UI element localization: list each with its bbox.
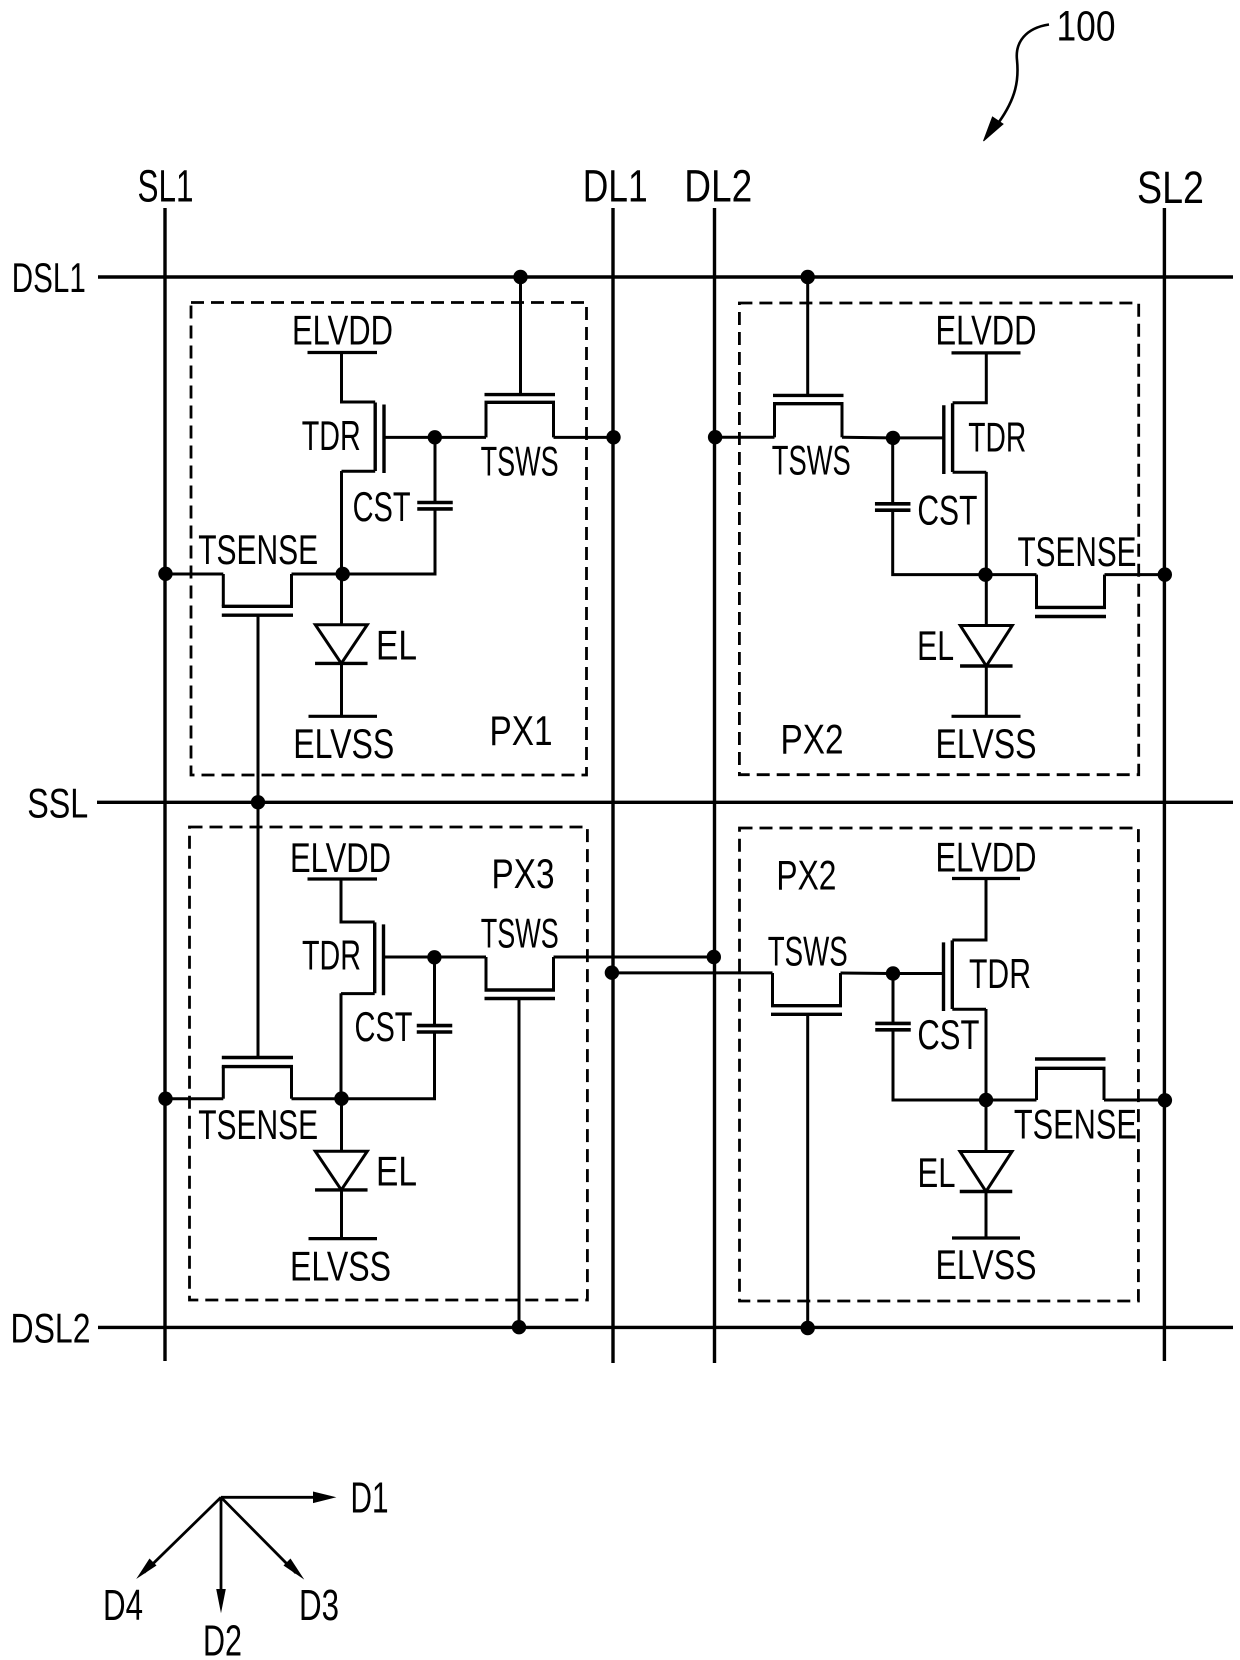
wire TSWS to node G (PX4) <box>841 972 894 976</box>
wire node G to TSWS (PX3) <box>434 956 486 959</box>
node G junction dot (PX4) <box>886 966 900 980</box>
svg-text:DL1: DL1 <box>583 161 648 212</box>
transistor TSENSE (PX3, sense) <box>222 1058 293 1099</box>
wire SSL (sense scan line, horizontal) <box>97 801 1233 804</box>
power symbol ELVSS (PX4) <box>952 1236 1020 1239</box>
wire node G to CST (PX4) <box>892 974 895 1024</box>
svg-text:TDR: TDR <box>302 932 361 979</box>
wire node G to TSWS (PX1) <box>435 436 486 439</box>
svg-text:CST: CST <box>917 487 977 534</box>
wire DL1 (data line 1, vertical) <box>611 208 614 1363</box>
wire TDR drain to node S (PX4) <box>985 1009 988 1100</box>
svg-text:SSL: SSL <box>27 779 88 826</box>
wire DL2 (data line 2, vertical) <box>713 208 716 1363</box>
svg-text:PX2: PX2 <box>781 716 844 763</box>
wire node G to CST (PX2) <box>891 438 894 504</box>
svg-text:DL2: DL2 <box>684 161 752 212</box>
wire TDR drain to node S (PX2) <box>985 472 988 575</box>
wire node S to TSENSE (PX4) <box>986 1099 1037 1102</box>
direction arrow D1 <box>221 1496 320 1499</box>
svg-text:ELVDD: ELVDD <box>292 307 393 354</box>
wire TSENSE to node S (PX3) <box>292 1097 343 1100</box>
junction dot on SL1 (PX1) <box>158 567 172 581</box>
node G junction dot (PX1) <box>428 430 442 444</box>
svg-text:100: 100 <box>1057 2 1116 50</box>
wire TSWS to node G (PX2) <box>842 436 893 440</box>
transistor TDR (PX3, drive) <box>341 879 384 995</box>
svg-text:TDR: TDR <box>302 412 361 459</box>
svg-text:TDR: TDR <box>968 414 1026 461</box>
transistor TSWS (PX2, switch) <box>773 395 844 437</box>
wire CST to node S (PX3) <box>342 1032 435 1099</box>
junction dot on DSL2 (PX3 gate) <box>512 1320 526 1334</box>
svg-text:SL1: SL1 <box>138 161 194 212</box>
wire TDR gate to node G (PX2) <box>893 436 944 439</box>
wire CST to node S (PX4) <box>893 1030 986 1100</box>
node G junction dot (PX3) <box>427 950 441 964</box>
wire node S to TSENSE (PX2) <box>986 573 1037 576</box>
capacitor CST (PX3) <box>417 1026 453 1032</box>
wire TSWS gate to DSL1 (PX1) <box>519 277 522 395</box>
junction dot on DL1 (PX4) <box>605 966 619 980</box>
wire node G to CST (PX3) <box>433 957 436 1025</box>
wire TSENSE gate to SSL (PX3) <box>257 802 260 1057</box>
capacitor CST (PX4) <box>875 1023 911 1029</box>
wire TDR gate to node G (PX1) <box>384 436 435 439</box>
capacitor CST (PX2) <box>875 504 911 510</box>
svg-text:CST: CST <box>917 1011 979 1058</box>
wire EL cathode to ELVSS (PX4) <box>985 1192 988 1239</box>
wire DL2 to TSWS (PX2) <box>715 436 774 439</box>
wire EL cathode to ELVSS (PX3) <box>340 1190 343 1239</box>
power symbol ELVDD (PX1) <box>308 351 378 354</box>
el diode EL (PX3) <box>340 1099 343 1152</box>
lead line arrow to 100 <box>999 25 1049 123</box>
junction dot on SL2 (PX2) <box>1158 567 1172 581</box>
svg-text:TSENSE: TSENSE <box>1018 528 1137 575</box>
transistor TDR (PX2, drive) <box>944 353 987 474</box>
svg-text:EL: EL <box>918 1149 956 1196</box>
wire SL2 (scan line 2, vertical) <box>1163 208 1166 1361</box>
direction arrow D3 <box>221 1497 296 1573</box>
transistor TDR (PX1, drive) <box>342 353 385 474</box>
capacitor CST (PX1) <box>417 503 453 509</box>
svg-text:TSENSE: TSENSE <box>198 526 318 573</box>
svg-text:ELVDD: ELVDD <box>936 307 1037 354</box>
wire DSL1 (drive scan line 1, horizontal) <box>98 275 1233 278</box>
svg-text:SL2: SL2 <box>1137 162 1204 213</box>
transistor TSENSE (PX2, sense) <box>1035 575 1106 617</box>
junction dot on SL2 (PX4) <box>1158 1093 1172 1107</box>
junction dot on SSL <box>251 795 265 809</box>
svg-text:TSWS: TSWS <box>481 909 559 956</box>
node S junction dot (PX4) <box>979 1093 993 1107</box>
transistor TSWS (PX4, switch) <box>771 973 842 1014</box>
wire SL1 to TSENSE (PX1) <box>165 573 223 576</box>
svg-text:CST: CST <box>355 1003 413 1050</box>
svg-text:D3: D3 <box>299 1581 339 1630</box>
wire TSENSE gate to SSL (PX1) <box>257 615 260 802</box>
wire TDR gate to node G (PX4) <box>893 972 944 975</box>
wire SL1 (scan line 1, vertical) <box>163 208 166 1361</box>
el diode EL (PX4) <box>985 1100 988 1151</box>
power symbol ELVSS (PX3) <box>309 1237 378 1240</box>
svg-text:EL: EL <box>376 1148 417 1195</box>
transistor TSWS (PX3, switch) <box>485 957 556 999</box>
svg-text:CST: CST <box>353 483 411 530</box>
wire CST to node S (PX2) <box>893 510 986 574</box>
wire TSWS to DL2 (PX3) <box>554 956 715 959</box>
svg-text:TDR: TDR <box>969 950 1031 997</box>
wire TSENSE to node S (PX1) <box>292 573 343 576</box>
power symbol ELVSS (PX1) <box>309 715 378 718</box>
junction dot on DL2 (PX2) <box>708 430 722 444</box>
svg-text:ELVSS: ELVSS <box>936 1241 1037 1288</box>
transistor TSENSE (PX1, sense) <box>222 574 293 615</box>
direction arrow D2 <box>220 1497 223 1592</box>
power symbol ELVDD (PX4) <box>952 877 1020 880</box>
wire TSWS to DL1 (PX1) <box>554 436 614 439</box>
node S junction dot (PX1) <box>336 567 350 581</box>
junction dot on DSL2 (PX4 gate) <box>801 1321 815 1335</box>
junction dot on SL1 (PX3) <box>158 1092 172 1106</box>
svg-text:PX2: PX2 <box>776 852 836 899</box>
svg-text:D1: D1 <box>351 1473 389 1522</box>
junction dot on DSL1 (PX2 gate) <box>801 270 815 284</box>
svg-text:D4: D4 <box>103 1581 143 1630</box>
power symbol ELVDD (PX2) <box>952 351 1021 354</box>
power symbol ELVSS (PX2) <box>952 715 1021 718</box>
wire TSWS gate to DSL2 (PX4) <box>806 1014 809 1327</box>
svg-text:ELVSS: ELVSS <box>290 1243 391 1290</box>
wire EL cathode to ELVSS (PX1) <box>340 663 343 716</box>
svg-text:PX3: PX3 <box>492 850 555 897</box>
wire CST to node S (PX1) <box>343 509 435 574</box>
wire TSWS gate to DSL2 (PX3) <box>518 999 521 1328</box>
svg-text:TSENSE: TSENSE <box>198 1101 318 1148</box>
el diode EL (PX2) <box>985 575 988 625</box>
svg-text:D2: D2 <box>203 1616 242 1660</box>
wire node G to CST (PX1) <box>434 437 437 502</box>
svg-text:ELVDD: ELVDD <box>936 834 1037 881</box>
node G junction dot (PX2) <box>886 431 900 445</box>
pixel PX4 boundary (dashed box, bottom-right) <box>740 828 1139 1301</box>
wire EL cathode to ELVSS (PX2) <box>985 666 988 716</box>
svg-text:ELVSS: ELVSS <box>936 720 1037 767</box>
svg-text:TSWS: TSWS <box>481 438 559 485</box>
el diode EL (PX1) <box>340 574 343 625</box>
node S junction dot (PX3) <box>334 1091 348 1105</box>
pixel PX1 boundary (dashed box) <box>191 303 587 776</box>
junction dot on DSL1 (PX1 gate) <box>513 270 527 284</box>
direction arrow D4 <box>144 1497 221 1572</box>
svg-text:PX1: PX1 <box>490 707 553 754</box>
svg-text:TSWS: TSWS <box>768 927 848 974</box>
junction dot on DL1 (PX1) <box>606 430 620 444</box>
svg-text:EL: EL <box>376 622 417 669</box>
pixel PX3 boundary (dashed box) <box>190 827 588 1300</box>
wire TSWS gate to DSL1 (PX2) <box>806 277 809 395</box>
svg-text:EL: EL <box>917 622 954 669</box>
pixel PX2 boundary (dashed box, top-right) <box>739 303 1138 775</box>
svg-text:ELVSS: ELVSS <box>293 720 394 767</box>
wire SL1 to TSENSE (PX3) <box>165 1097 223 1100</box>
transistor TSENSE (PX4, sense) <box>1035 1059 1106 1100</box>
svg-text:DSL2: DSL2 <box>11 1304 91 1351</box>
svg-text:TSENSE: TSENSE <box>1014 1101 1137 1148</box>
transistor TSWS (PX1, switch) <box>485 395 556 438</box>
svg-text:TSWS: TSWS <box>772 437 851 484</box>
wire TDR drain to node S (PX3) <box>340 993 343 1098</box>
node S junction dot (PX2) <box>978 568 992 582</box>
power symbol ELVDD (PX3) <box>308 877 378 880</box>
wire TSENSE to SL2 (PX2) <box>1105 573 1165 576</box>
wire DSL2 (drive scan line 2, horizontal) <box>98 1326 1233 1329</box>
wire TDR gate to node G (PX3) <box>384 956 435 959</box>
wire TSENSE to SL2 (PX4) <box>1104 1099 1164 1102</box>
svg-text:DSL1: DSL1 <box>12 254 86 301</box>
wire TDR drain to node S (PX1) <box>340 471 343 574</box>
svg-text:ELVDD: ELVDD <box>290 834 391 881</box>
wire DL1 to TSWS (PX4) <box>612 971 773 974</box>
junction dot on DL2 (PX3) <box>707 950 721 964</box>
transistor TDR (PX4, drive) <box>944 879 987 1012</box>
